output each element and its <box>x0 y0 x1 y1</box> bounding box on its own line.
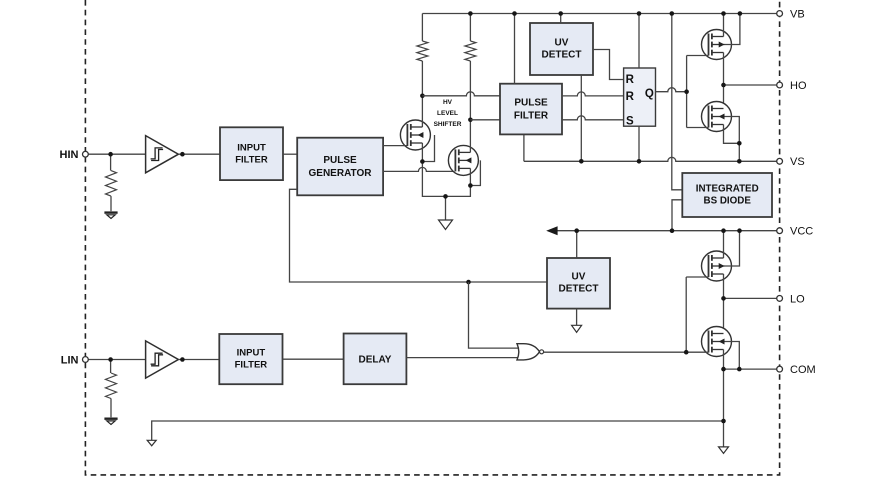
svg-text:VCC: VCC <box>790 226 813 238</box>
svg-text:HO: HO <box>790 80 807 92</box>
svg-text:BS DIODE: BS DIODE <box>704 196 752 207</box>
svg-text:HIN: HIN <box>60 149 79 161</box>
svg-text:R: R <box>626 74 635 86</box>
svg-text:PULSE: PULSE <box>514 98 548 109</box>
svg-text:INPUT: INPUT <box>237 347 266 358</box>
svg-text:COM: COM <box>790 364 816 376</box>
svg-text:VB: VB <box>790 8 805 20</box>
svg-text:FILTER: FILTER <box>235 154 268 165</box>
svg-text:FILTER: FILTER <box>235 359 268 370</box>
svg-text:INTEGRATED: INTEGRATED <box>696 184 759 195</box>
svg-text:UV: UV <box>572 272 586 283</box>
svg-text:DETECT: DETECT <box>542 49 582 60</box>
svg-text:Q: Q <box>645 88 654 100</box>
svg-text:LEVEL: LEVEL <box>437 110 458 117</box>
svg-text:FILTER: FILTER <box>514 111 549 122</box>
svg-text:VS: VS <box>790 156 805 168</box>
svg-text:INPUT: INPUT <box>237 142 266 153</box>
svg-text:SHIFTER: SHIFTER <box>434 121 462 128</box>
svg-text:R: R <box>626 91 635 103</box>
svg-text:GENERATOR: GENERATOR <box>309 168 373 179</box>
svg-text:PULSE: PULSE <box>323 155 357 166</box>
svg-text:HV: HV <box>443 99 453 106</box>
svg-text:DELAY: DELAY <box>359 355 392 366</box>
svg-text:UV: UV <box>555 37 569 48</box>
svg-text:DETECT: DETECT <box>559 284 599 295</box>
svg-text:LO: LO <box>790 293 805 305</box>
svg-text:LIN: LIN <box>61 354 79 366</box>
svg-text:S: S <box>626 115 634 127</box>
